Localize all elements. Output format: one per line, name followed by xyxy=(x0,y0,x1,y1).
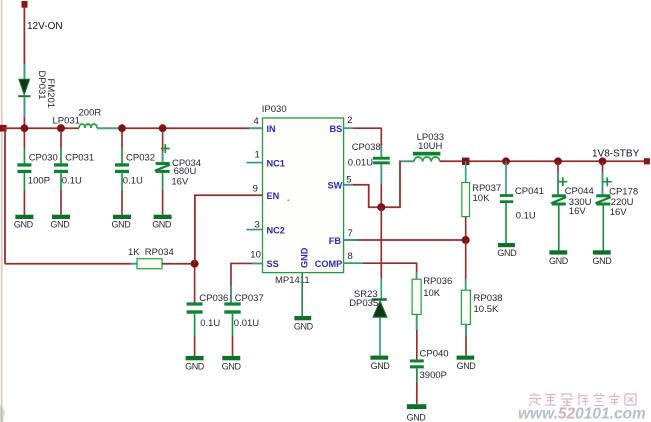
svg-text:GND: GND xyxy=(457,361,477,371)
ground for CP030 xyxy=(14,215,34,230)
svg-text:CP040: CP040 xyxy=(420,349,449,360)
svg-text:MP1411: MP1411 xyxy=(275,275,310,286)
svg-text:CP031: CP031 xyxy=(65,153,94,164)
ground for DP035 xyxy=(370,356,390,371)
wire left feedback drop xyxy=(4,128,6,264)
svg-text:1V8-STBY: 1V8-STBY xyxy=(592,148,640,159)
svg-text:0.1U: 0.1U xyxy=(62,176,82,187)
svg-text:0.1U: 0.1U xyxy=(516,210,536,221)
svg-text:16V: 16V xyxy=(569,206,587,217)
svg-text:GND: GND xyxy=(549,256,569,266)
junction at CP044 xyxy=(554,157,562,165)
svg-text:10.5K: 10.5K xyxy=(474,304,499,315)
svg-text:CP036: CP036 xyxy=(199,293,228,304)
ground for RP038 xyxy=(457,356,477,371)
inductor LP033 bar xyxy=(413,152,441,156)
wire RP034 to EN junction xyxy=(162,263,195,265)
svg-text:16V: 16V xyxy=(171,177,189,188)
svg-text:2: 2 xyxy=(347,115,352,126)
svg-text:CP030: CP030 xyxy=(29,153,58,164)
ground for CP037 xyxy=(222,356,242,372)
capacitor CP036 xyxy=(187,302,203,356)
svg-text:GND: GND xyxy=(300,247,310,268)
svg-text:GND: GND xyxy=(14,219,34,229)
IC IP030 body (regulator MP1411) xyxy=(263,118,344,273)
wire BS pin to CP038 xyxy=(344,128,382,157)
ground for CP034 xyxy=(152,215,172,230)
svg-text:1K: 1K xyxy=(128,247,140,258)
svg-text:SS: SS xyxy=(267,259,279,269)
pin 3 stub xyxy=(246,229,262,231)
capacitor CP032 xyxy=(115,131,129,215)
watermark chinese characters xyxy=(529,393,636,406)
svg-text:CP037: CP037 xyxy=(235,293,264,304)
svg-text:0.01U: 0.01U xyxy=(234,318,259,329)
wire teal stub at pin 4 xyxy=(249,127,263,129)
svg-text:GND: GND xyxy=(51,219,71,229)
junction at diode / rail xyxy=(21,124,29,132)
wire EN junction to CP036 xyxy=(194,267,196,303)
svg-text:IN: IN xyxy=(267,124,277,134)
svg-text:RP034: RP034 xyxy=(145,247,174,258)
svg-text:CP032: CP032 xyxy=(126,153,155,164)
capacitor CP030 xyxy=(17,131,31,215)
svg-text:NC1: NC1 xyxy=(267,158,285,168)
capacitor CP037 xyxy=(224,302,240,356)
capacitor CP040 xyxy=(410,359,424,404)
svg-text:FB: FB xyxy=(329,236,342,246)
svg-text:GND: GND xyxy=(112,219,132,229)
svg-text:COMP: COMP xyxy=(315,259,343,269)
resistor RP037 xyxy=(462,161,470,240)
ground for CP036 xyxy=(185,356,205,372)
wire COMP pin run xyxy=(344,263,417,279)
svg-text:RP038: RP038 xyxy=(474,293,503,304)
inductor LP033 coil xyxy=(414,157,440,162)
node 12V-ON port square xyxy=(22,1,28,8)
junction at CP031 xyxy=(57,124,65,132)
svg-text:12V-ON: 12V-ON xyxy=(27,21,63,32)
wire SW pin routing xyxy=(344,161,414,207)
svg-text:GND: GND xyxy=(294,321,314,331)
ground for CP032 xyxy=(112,215,132,230)
svg-text:EN: EN xyxy=(267,191,280,201)
wire FB pin run xyxy=(344,239,466,241)
junction FB node xyxy=(462,236,470,244)
svg-text:RP036: RP036 xyxy=(423,276,452,287)
ground for CP040 xyxy=(407,404,427,422)
capacitor CP178 (electrolytic) xyxy=(596,161,612,250)
svg-text:CP044: CP044 xyxy=(565,186,594,197)
wire IC GND pin down xyxy=(301,273,303,316)
svg-text:10K: 10K xyxy=(423,288,441,299)
svg-text:10: 10 xyxy=(250,250,261,261)
wire EN vertical xyxy=(195,195,263,263)
node 1V8-STBY port square xyxy=(644,158,650,164)
resistor RP034 xyxy=(130,263,171,265)
junction at CP032 xyxy=(118,124,126,132)
svg-text:GND: GND xyxy=(222,362,242,372)
node left port square on 12V rail xyxy=(0,125,7,132)
resistor RP038 xyxy=(461,290,470,355)
svg-text:10UH: 10UH xyxy=(418,141,442,152)
ground for CP031 xyxy=(51,215,71,230)
svg-text:SW: SW xyxy=(327,181,342,191)
capacitor CP044 (electrolytic) xyxy=(551,161,567,250)
wire 12V rail after inductor to IC pin IN xyxy=(97,127,263,129)
svg-text:DP035: DP035 xyxy=(349,298,378,309)
capacitor CP038 xyxy=(373,157,390,207)
svg-text:9: 9 xyxy=(253,184,258,195)
wire 12V-ON vertical to diode xyxy=(23,8,25,80)
ground for CP041 xyxy=(497,243,517,258)
junction SW node xyxy=(377,203,385,211)
svg-text:4: 4 xyxy=(254,116,259,127)
svg-text:GND: GND xyxy=(152,219,172,229)
svg-text:0.1U: 0.1U xyxy=(200,318,220,329)
junction at CP034 xyxy=(159,124,167,132)
capacitor CP034 (electrolytic) xyxy=(155,131,170,215)
wire diode to 12V rail xyxy=(23,98,25,129)
junction at CP178 xyxy=(599,157,607,165)
svg-text:CP041: CP041 xyxy=(515,186,544,197)
wire teal tint after inductor xyxy=(97,127,120,129)
svg-text:200R: 200R xyxy=(79,108,102,119)
ground for IC xyxy=(294,316,314,331)
svg-text:FM201: FM201 xyxy=(45,79,56,109)
page edge artifact left xyxy=(1,0,3,422)
junction EN node xyxy=(191,260,199,268)
capacitor CP031 xyxy=(54,131,68,215)
svg-text:3: 3 xyxy=(255,220,260,231)
diode DP031 xyxy=(18,79,30,96)
wire FB node down to RP038 xyxy=(465,240,467,290)
svg-text:16V: 16V xyxy=(610,207,628,218)
svg-text:0.01U: 0.01U xyxy=(348,157,373,168)
ground for CP044 xyxy=(549,250,569,266)
svg-text:680U: 680U xyxy=(174,166,197,177)
svg-text:GND: GND xyxy=(407,413,427,422)
svg-text:3900P: 3900P xyxy=(420,370,447,381)
svg-text:10K: 10K xyxy=(473,193,491,204)
svg-text:7: 7 xyxy=(348,228,353,239)
svg-text:8: 8 xyxy=(348,251,353,262)
svg-text:GND: GND xyxy=(371,361,391,371)
wire SS pin run xyxy=(231,263,263,302)
svg-text:LP031: LP031 xyxy=(53,116,80,127)
svg-text:NC2: NC2 xyxy=(267,226,285,236)
svg-text:GND: GND xyxy=(185,362,205,372)
svg-text:0.1U: 0.1U xyxy=(123,176,143,187)
junction at CP041 xyxy=(502,157,510,165)
wire bottom run to RP034 xyxy=(5,263,137,265)
junction at RP037 xyxy=(462,158,469,165)
ground for CP178 xyxy=(593,250,613,266)
svg-text:GND: GND xyxy=(593,256,613,266)
page edge artifact bottom-left corner xyxy=(0,404,5,422)
svg-text:DP031: DP031 xyxy=(36,71,47,100)
wire SS teal tint xyxy=(230,285,232,303)
grid artifact dot inside IC xyxy=(288,200,290,202)
wire 1V8 output rail xyxy=(440,160,646,162)
svg-text:GND: GND xyxy=(497,248,517,258)
svg-text:IP030: IP030 xyxy=(262,104,287,115)
wire 12V rail left segment xyxy=(3,127,79,129)
svg-text:CP038: CP038 xyxy=(352,142,381,153)
svg-text:1: 1 xyxy=(255,150,260,161)
capacitor CP041 xyxy=(500,161,513,243)
svg-text:100P: 100P xyxy=(28,176,50,187)
inductor LP031 xyxy=(79,124,97,128)
resistor RP036 xyxy=(412,279,421,359)
svg-text:BS: BS xyxy=(330,124,343,134)
diode DP035 xyxy=(372,207,387,356)
pin 1 stub xyxy=(246,162,262,164)
svg-text:www.520101.com: www.520101.com xyxy=(518,406,646,422)
